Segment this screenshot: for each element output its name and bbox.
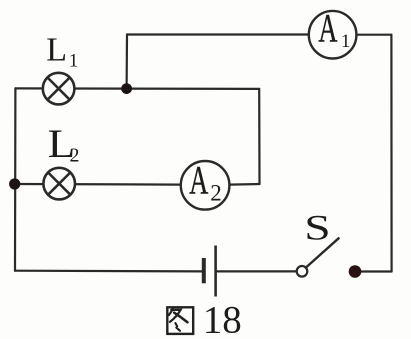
wire left vertical side [14, 88, 17, 270]
svg-text:A: A [318, 7, 337, 51]
wire from ammeter A1 right terminal to top-right corner [356, 34, 391, 36]
svg-text:2: 2 [70, 145, 80, 167]
wire riser from node B down to L1 branch [125, 35, 128, 89]
battery negative plate (short thick) [202, 258, 206, 283]
lamp L1 [43, 73, 75, 105]
node A junction dot on left vertical [9, 178, 20, 189]
switch S lever arm [306, 238, 339, 267]
wire bottom from battery positive plate to switch pivot [216, 270, 297, 272]
wire A2 branch from vertical to ammeter A2 right terminal [229, 183, 259, 186]
svg-text:1: 1 [69, 51, 79, 72]
node B junction dot on L1 branch [121, 83, 132, 94]
lamp L2 [43, 168, 75, 200]
ammeter A2 [181, 159, 230, 210]
ammeter A1 [309, 7, 357, 58]
svg-text:L: L [46, 32, 67, 69]
node switch-side junction dot [349, 265, 362, 278]
wire top horizontal from node B riser to ammeter A1 left terminal [127, 33, 309, 35]
svg-text:18: 18 [203, 299, 242, 339]
wire bottom from left corner to battery negative plate [15, 270, 204, 273]
caption character tu (figure) drawn as strokes [167, 307, 193, 334]
switch S pivot circle [297, 266, 308, 277]
wire right-middle vertical joining L1 branch and A2 branch [258, 89, 260, 184]
svg-text:A: A [189, 159, 208, 203]
wire L1 branch horizontal [15, 87, 259, 90]
svg-text:2: 2 [210, 181, 222, 206]
svg-text:1: 1 [341, 31, 351, 52]
wire from right vertical to switch fixed node [355, 270, 392, 272]
battery positive plate (long thin) [214, 246, 217, 297]
wire L2 branch from node A to ammeter A2 left terminal [15, 183, 181, 186]
svg-text:S: S [304, 208, 330, 248]
wire right vertical side [390, 35, 392, 272]
